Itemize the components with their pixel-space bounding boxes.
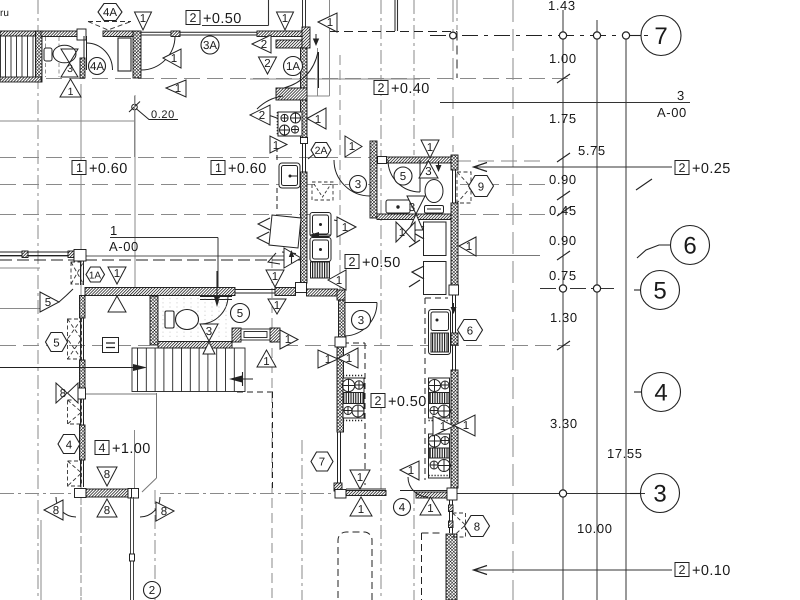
- tri 8 down (107,477): [97, 467, 117, 486]
- svg-text:2: 2: [264, 58, 270, 70]
- bowtie 8 (66,393): [56, 383, 78, 403]
- grid axis y=35 with dashes: [430, 35, 648, 37]
- tri 8 right (165,511): [156, 502, 174, 521]
- circ 4A (97,66): [89, 58, 106, 75]
- svg-text:3: 3: [653, 481, 666, 508]
- tri 1 left (400,470): [400, 461, 419, 480]
- svg-text:+1.00: +1.00: [112, 441, 151, 457]
- svg-text:ru: ru: [0, 8, 9, 19]
- node (563,35): [559, 32, 566, 39]
- corridor west wall (370-377): [370, 141, 377, 218]
- bowtie 3/1 toilet bath1: [60, 49, 81, 98]
- bath2 sink: [386, 200, 410, 213]
- grid horizontal y=121: [0, 120, 135, 122]
- wall block (334,483): [334, 483, 342, 491]
- window top2 (195-257): [180, 32, 257, 35]
- svg-text:0.45: 0.45: [549, 203, 577, 218]
- toilet1 fixture: [165, 310, 199, 330]
- svg-text:A-00: A-00: [657, 105, 687, 120]
- arrow down bath2: [438, 161, 440, 169]
- svg-text:+0.25: +0.25: [692, 161, 731, 177]
- svg-text:+0.50: +0.50: [362, 255, 401, 271]
- svg-text:2: 2: [375, 394, 382, 408]
- main lower wall y=287-295: segment 1: [85, 288, 235, 296]
- porch end box right: [128, 489, 139, 499]
- long dashed line y=255: [0, 259, 302, 261]
- tri 8 left (53,510): [44, 500, 63, 520]
- svg-text:3: 3: [677, 88, 685, 103]
- corridor dishrack: [311, 262, 330, 278]
- svg-text:1: 1: [466, 241, 472, 253]
- tri 1 down (275,278): [266, 270, 284, 287]
- toilet1 west wall: [150, 296, 158, 345]
- bubble 6: [637, 245, 671, 258]
- arrow left +0.10: [474, 566, 488, 575]
- door toilet1 leaf: [200, 296, 232, 298]
- svg-text:5.75: 5.75: [578, 143, 606, 158]
- svg-text:3: 3: [358, 315, 364, 327]
- svg-text:0.90: 0.90: [549, 172, 577, 187]
- door toilet1 arc: [200, 296, 228, 324]
- porch bar top line: [346, 488, 386, 490]
- left wall pier (360-388): [80, 360, 86, 388]
- dashed outline y=31 top: [330, 31, 457, 33]
- axis bubbles: [630, 16, 710, 513]
- svg-text:+0.40: +0.40: [391, 81, 430, 97]
- svg-text:3A: 3A: [203, 40, 217, 52]
- svg-text:0.90: 0.90: [549, 233, 577, 248]
- door porch right arc: [140, 497, 160, 517]
- svg-text:1: 1: [140, 13, 146, 25]
- entry arrow down toilet1: [216, 271, 218, 303]
- door porch left arc: [56, 497, 76, 517]
- svg-text:8: 8: [474, 522, 480, 534]
- bowtie 1|1 wall unit2: [318, 348, 358, 368]
- porch bar right of gap: [416, 492, 447, 498]
- svg-text:1: 1: [399, 227, 405, 239]
- grid vertical x=302: [301, 440, 303, 600]
- black dashed construction lines: [0, 32, 648, 600]
- tri 1 left (459,246): [459, 237, 476, 256]
- tri 1 down (277,306): [268, 299, 286, 314]
- svg-text:3: 3: [67, 63, 73, 75]
- wall block (171-180): [171, 31, 180, 37]
- section line 3/A-00 y=103: [440, 102, 690, 104]
- tri 1 right (355,227): [337, 217, 356, 237]
- dashed counter x=277: [276, 139, 278, 163]
- hex 7 (322,461): [311, 452, 333, 471]
- svg-text:+0.50: +0.50: [388, 394, 427, 410]
- svg-text:3: 3: [206, 326, 212, 338]
- room edge gray y=96: [303, 95, 330, 97]
- svg-text:2: 2: [679, 161, 686, 175]
- stair arrow: [234, 372, 253, 386]
- svg-text:6: 6: [683, 233, 696, 260]
- hex 2A (322,150): [311, 143, 331, 158]
- toilet1 bottom wall: [158, 342, 232, 349]
- svg-text:1: 1: [358, 504, 364, 516]
- leaf corridor top: [318, 52, 320, 88]
- room edge gray y=79 top center: [250, 78, 420, 80]
- bed pillows chevrons: [409, 226, 424, 287]
- svg-text:1: 1: [272, 271, 278, 283]
- section line 1/A-00: [110, 237, 218, 239]
- svg-text:7: 7: [654, 23, 667, 50]
- toilet bath1: tank: [44, 45, 76, 63]
- leader curve triangle5: [59, 289, 73, 302]
- beds bedroom right: [424, 222, 447, 295]
- landing window: [241, 329, 270, 340]
- label [4]+1.00: [95, 441, 151, 458]
- arrow left +0.25: [474, 163, 488, 172]
- label [2]+0.50 mid: [345, 255, 401, 272]
- grid vertical x=272: [271, 258, 273, 600]
- bowtie 1 porch2 top: [350, 470, 370, 489]
- tri 1 down (117,275): [108, 267, 126, 284]
- bowtie 1 porch2 bottom: [350, 497, 372, 516]
- tri 2 (261,44): [252, 35, 271, 53]
- svg-text:0.75: 0.75: [549, 268, 577, 283]
- door corridor top arc: [284, 52, 318, 88]
- axis line y=493 right: [457, 493, 645, 495]
- wall block (22,251): [22, 251, 28, 258]
- insulation X boxes on left wall: [68, 172, 472, 537]
- svg-text:1: 1: [114, 268, 120, 280]
- left wall window y=251-257: [0, 252, 68, 256]
- east wall (370-488): [451, 370, 458, 488]
- svg-text:2: 2: [679, 563, 686, 577]
- svg-text:8: 8: [53, 505, 59, 517]
- circ 3A (210,45): [201, 36, 219, 54]
- door bath2 arc: [388, 160, 420, 192]
- porch gray x=41: [40, 520, 42, 600]
- dimension texts: [109, 0, 687, 536]
- svg-text:9: 9: [478, 182, 484, 194]
- grid horizontal y=345: [0, 345, 150, 347]
- dashed carport rect bottom: [338, 532, 372, 600]
- tri up (117,304): [108, 296, 126, 312]
- svg-text:5: 5: [45, 297, 51, 309]
- arrow into sink2: [440, 326, 449, 336]
- X box (67,399): [68, 400, 82, 424]
- dimension ticks on x=563 chain: [557, 74, 652, 350]
- svg-text:10.00: 10.00: [577, 521, 613, 536]
- left wall window (460-486): [81, 460, 84, 487]
- dashed counter x=425: [424, 298, 426, 480]
- toilet1 room tiles: [163, 298, 226, 340]
- circ 5 (240,313): [231, 304, 250, 323]
- lower wall segment 3 (307-337): [307, 289, 338, 296]
- svg-text:1: 1: [68, 86, 74, 98]
- svg-text:1.75: 1.75: [549, 111, 577, 126]
- label [2]+0.10: [675, 563, 731, 580]
- svg-text:1.00: 1.00: [549, 51, 577, 66]
- porch bar right unit: [346, 491, 386, 496]
- tri 8 up (107,508): [97, 499, 117, 517]
- grid horizontal y=156: [0, 157, 370, 159]
- shaft box with X (452,513): [453, 513, 466, 537]
- wall pier stair: [36, 31, 43, 82]
- leader curve triangle2 stove: [268, 115, 283, 121]
- tri 1 right (289,339): [280, 330, 298, 349]
- node (597,288): [593, 285, 600, 292]
- hex 9 (481,186): [469, 176, 494, 197]
- door entry1 arc: [141, 36, 175, 70]
- leader curve sink triangle: [334, 220, 355, 227]
- toilet bath1: bowl: [53, 45, 76, 63]
- svg-text:8: 8: [104, 505, 110, 517]
- tri 1 down (285,20): [277, 12, 294, 30]
- svg-text:5: 5: [53, 338, 59, 350]
- bubble 5: [634, 289, 641, 291]
- east wall window (345-370): [453, 345, 456, 370]
- door kitchen2 arc: [408, 477, 428, 497]
- wall top bath1: [41, 31, 77, 37]
- tri 1 (268,143): [270, 136, 287, 153]
- bowtie 1 beds top: [396, 222, 415, 242]
- leader line +0.10 y=570: [474, 569, 672, 571]
- svg-text:1: 1: [342, 222, 348, 234]
- grid horizontal y=493 left part: [0, 493, 76, 495]
- east window mullions: [449, 505, 454, 512]
- grid horizontal y=214: [0, 214, 310, 216]
- window top (141-171): [141, 32, 171, 35]
- X box (67,460): [68, 461, 82, 486]
- svg-text:8: 8: [60, 388, 66, 400]
- dashed landing x=272: [272, 392, 274, 492]
- svg-text:1: 1: [463, 420, 469, 432]
- tri 1 up (430,507): [420, 497, 441, 515]
- main vertical wall middle: [301, 100, 308, 138]
- bowtie 1|1 wall kitchen2: [433, 415, 475, 436]
- bath2 toilet: [425, 180, 444, 214]
- tri 5 right (49,302): [40, 292, 59, 312]
- wall stub inner corridor: [276, 40, 307, 48]
- porch gray x=81 dash: [80, 497, 82, 600]
- svg-text:3: 3: [425, 166, 431, 178]
- svg-text:8: 8: [161, 506, 167, 518]
- unit2 left wall upper: [339, 300, 346, 338]
- left edge gray y=308: [0, 308, 42, 310]
- svg-text:4: 4: [654, 380, 667, 407]
- svg-text:2: 2: [259, 110, 265, 122]
- leaf bath2: [419, 160, 421, 192]
- tri 1 left (310,118): [307, 108, 326, 129]
- bubble 7: [630, 35, 641, 37]
- equals box: [103, 338, 119, 353]
- circ 3 (361,320): [352, 311, 371, 330]
- node (453,35): [450, 32, 457, 39]
- room edge gray x=330 top: [329, 0, 331, 96]
- porch posts lines bottom: [130, 497, 135, 600]
- dim line x=563: [562, 10, 564, 600]
- left wall window x=81 (262-284): [81, 261, 84, 285]
- left wall pier (295-318): [80, 296, 86, 319]
- svg-text:3.30: 3.30: [550, 416, 578, 431]
- svg-text:1: 1: [273, 140, 279, 152]
- wall stub below door bath1: [80, 58, 85, 78]
- tri 2 left (250,115): [250, 105, 270, 125]
- kitchen1 stove 2x2: [278, 112, 303, 136]
- door unit2 leaf: [345, 302, 377, 304]
- up arrow in triangle (291,257): [291, 253, 293, 263]
- landing window piers: [232, 328, 241, 342]
- upper room divider lines x=302: [303, 0, 306, 27]
- lower wall segment 2: [275, 288, 296, 296]
- porch box (335,490): [335, 490, 346, 499]
- svg-text:5: 5: [400, 171, 406, 183]
- label [1]+0.60 mid: [211, 161, 267, 178]
- east window (500-533): [450, 500, 453, 533]
- bath2 jamb: [378, 157, 387, 164]
- svg-text:1: 1: [327, 17, 333, 29]
- kitchen2 right column sink unit: [429, 310, 451, 355]
- svg-text:1: 1: [346, 353, 352, 365]
- corridor counter sink A: [310, 213, 331, 237]
- arrow down small top corridor: [315, 34, 317, 43]
- east wall (203-285): [451, 203, 458, 285]
- dashed x=421 bottom: [421, 533, 423, 600]
- wall top strip left: [0, 31, 36, 36]
- door closet top-left: leaf: [83, 36, 85, 70]
- tri 1 left (327,22): [318, 13, 337, 32]
- svg-text:1: 1: [282, 13, 288, 25]
- porch bar left unit: [86, 489, 128, 497]
- wall top right (257-307): [257, 31, 307, 37]
- svg-text:17.55: 17.55: [607, 446, 643, 461]
- svg-text:4: 4: [99, 441, 106, 455]
- circ 3 (358,184): [350, 176, 367, 193]
- bowtie 1/3 bath2 door: [419, 140, 439, 178]
- svg-text:1: 1: [110, 223, 118, 238]
- table dining: [269, 215, 301, 254]
- bowtie 3 toilet1: [200, 324, 218, 354]
- svg-text:+0.60: +0.60: [228, 161, 267, 177]
- svg-text:+0.50: +0.50: [203, 11, 242, 27]
- svg-text:5: 5: [653, 278, 666, 305]
- grid vertical x=414: [413, 0, 415, 155]
- arrow down kitchen2 wall: [453, 303, 455, 311]
- junction box (296,283): [296, 283, 307, 293]
- top room outline: [202, 0, 398, 31]
- tri 1 down (143,20): [135, 12, 152, 30]
- grid horizontal y=78: [0, 78, 570, 80]
- svg-text:2: 2: [261, 39, 267, 51]
- stairs top-left corner: [0, 36, 41, 83]
- svg-text:1A: 1A: [286, 61, 300, 73]
- junction box (75,388): [75, 388, 86, 399]
- bath2 bottom wall: [377, 214, 453, 220]
- bubble 3: [630, 493, 641, 495]
- svg-text:3: 3: [355, 179, 361, 191]
- grid vertical x=381: [380, 0, 382, 600]
- wall pier x=133: [133, 31, 141, 78]
- bowtie 1 (295,257): [284, 248, 301, 268]
- svg-text:2: 2: [190, 11, 197, 25]
- svg-text:6: 6: [467, 326, 473, 338]
- kitchen2 left column stove: [342, 376, 364, 421]
- left edge gray y=268: [0, 267, 40, 269]
- circ 5 (403,176): [394, 167, 412, 185]
- svg-text:1: 1: [408, 465, 414, 477]
- door unit2 arc: [345, 303, 377, 337]
- grid lines gray: [0, 0, 570, 600]
- svg-text:3: 3: [409, 202, 415, 214]
- left wall window (399-425): [81, 399, 84, 425]
- wall block (68,251): [68, 251, 74, 258]
- leader curve 2A: [308, 153, 315, 159]
- wall pier (303,27): [302, 27, 310, 48]
- svg-text:1: 1: [76, 161, 83, 175]
- grid vertical x=513: [512, 0, 514, 600]
- tri 1 left (172,58): [163, 49, 181, 68]
- room edge gray x=157 bottom: [156, 393, 158, 478]
- bubble 4: [634, 391, 642, 393]
- svg-text:1.43: 1.43: [548, 0, 576, 13]
- svg-text:1: 1: [263, 356, 269, 368]
- svg-text:4A: 4A: [90, 61, 104, 73]
- node (563,493): [559, 490, 566, 497]
- bowtie 3 bath2 sink: [407, 196, 425, 230]
- jamb box top: [77, 29, 86, 40]
- svg-text:8: 8: [104, 469, 110, 481]
- diag corner bottom-left room: [142, 478, 157, 492]
- tri 1 left (176,88): [166, 80, 186, 97]
- main staircase: [132, 348, 245, 392]
- label [2]+0.50 top: [186, 11, 242, 28]
- dashed outline x=457 top: [456, 32, 458, 79]
- unit2 left window (432-483): [338, 432, 341, 483]
- svg-text:1: 1: [285, 334, 291, 346]
- grid horizontal y=184: [0, 184, 370, 186]
- corridor edge x=317: [317, 48, 319, 96]
- svg-text:1: 1: [440, 421, 446, 433]
- bath2 top wall: [377, 157, 453, 163]
- kitchen1 sink: [279, 163, 300, 188]
- node (626,36): [622, 32, 629, 39]
- east wall window (295-333): [453, 295, 456, 333]
- svg-text:1: 1: [274, 300, 280, 312]
- 0.20 marker: [129, 96, 178, 157]
- svg-text:1A: 1A: [89, 271, 102, 282]
- grid vertical x=155: [154, 490, 156, 600]
- door curve kitchen-living: [257, 96, 283, 109]
- wall top closet: [103, 31, 133, 37]
- svg-text:2: 2: [349, 255, 356, 269]
- svg-text:1: 1: [215, 161, 222, 175]
- door corridor mid arc: [334, 160, 370, 196]
- tri 2 down (267,65): [259, 57, 277, 74]
- chairs at table: [257, 218, 280, 264]
- tri 1 left (328,280): [328, 270, 346, 290]
- dashed landing y=392: [237, 391, 273, 393]
- dim line x=626: [625, 36, 627, 600]
- circ 1A (293,66): [284, 57, 303, 76]
- circ 2 (152,590): [144, 582, 161, 599]
- tri 1 right (353,146): [345, 136, 362, 157]
- heavy wall bottom right: [446, 534, 457, 600]
- kitchen2 right column stove: [429, 378, 451, 421]
- label [2]+0.25: [675, 161, 731, 178]
- svg-text:+0.60: +0.60: [89, 161, 128, 177]
- svg-text:1: 1: [325, 354, 331, 366]
- wall block kitchen corridor: [276, 88, 307, 100]
- node circles on axes: [450, 32, 630, 497]
- svg-text:2: 2: [149, 585, 155, 597]
- svg-text:4A: 4A: [103, 7, 117, 19]
- hex 8 (477,526): [465, 516, 490, 537]
- sink leader arrow: [318, 234, 331, 236]
